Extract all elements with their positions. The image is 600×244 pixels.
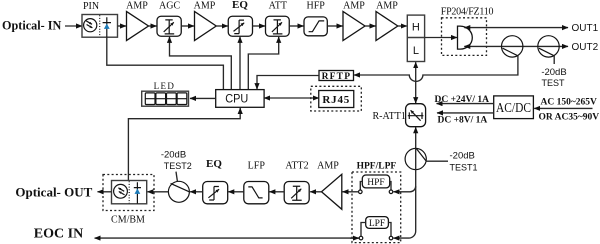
svg-text:FP204/FZ110: FP204/FZ110 [441,7,494,18]
wire CM/BM to Optical-OUT [98,191,112,193]
wire CPU to CM/BM laser control [128,108,240,181]
filter LFP [244,182,269,204]
laser transmitter module CM/BM [112,181,147,204]
svg-text:TEST: TEST [541,78,565,88]
svg-text:DC +24V/ 1A: DC +24V/ 1A [435,95,490,105]
display LED [142,91,189,106]
wire LFP to EQ2 [228,191,244,193]
wire A1 tap to RFTP (hops under vertical) [354,56,518,82]
svg-text:OUT1: OUT1 [572,23,599,34]
svg-text:R-ATT1: R-ATT1 [373,111,406,122]
svg-text:HFP: HFP [307,1,326,12]
wire OUT1 line [464,27,568,29]
op-amp AMP1 [127,12,149,41]
svg-text:Optical- IN: Optical- IN [2,19,61,33]
svg-text:TEST2: TEST2 [164,161,192,171]
test point TEST2 circle [168,172,189,203]
wire EQ to ATT [253,25,266,27]
svg-text:Optical- OUT: Optical- OUT [15,185,92,200]
wire EOC IN line [95,237,360,239]
wire AMP5 to ATT2 [310,191,321,193]
test point TEST1 circle [405,148,426,169]
connector RJ45 [319,91,354,108]
test point RFTP [319,71,354,83]
attenuator plug-in A1 on OUT2 [502,36,523,57]
svg-text:CPU: CPU [225,94,248,106]
svg-text:-20dB: -20dB [541,67,566,78]
svg-text:PIN: PIN [83,1,99,12]
op-amp AMP4 [376,12,398,41]
wire AMP3 to AMP4 [365,25,376,27]
wire vertical through TEST1 [415,148,417,169]
svg-text:DC +8V/ 1A: DC +8V/ 1A [438,116,488,126]
wire OUT2 line [464,45,568,47]
svg-text:RJ45: RJ45 [322,94,350,106]
filter HFP [304,17,327,36]
junction HPF right contact [389,190,393,194]
junction LPF right contact [389,236,393,240]
svg-text:AMP: AMP [317,160,339,171]
equalizer EQ2 [203,182,228,204]
wire AMP1 to AGC [149,25,157,27]
wire CPU to EQ control [239,37,241,90]
wire TEST1 to R-ATT1 [415,127,417,148]
wire PIN to AMP1 [118,25,127,27]
wire EQ2 to TEST2 [190,191,203,193]
wire test tap stub A2 [553,56,555,64]
RJ45 dashed box [311,86,362,111]
svg-text:ATT2: ATT2 [285,160,308,171]
wire CPU to AGC control [170,37,232,90]
svg-text:H: H [412,22,420,34]
wire TEST2 to CM/BM [147,191,168,193]
wire DC +24V output [437,103,494,105]
op-amp AMP3 [343,12,365,41]
attenuator plug-in A2 on OUT2 [538,36,559,57]
wire TEST1 tap label stub [426,160,448,162]
PIN optical receiver module U-PIN [82,15,118,38]
wire CPU to LED [190,97,216,99]
svg-text:EQ: EQ [206,158,222,170]
diplexer H/L [407,15,424,61]
svg-text:AMP: AMP [343,1,365,12]
svg-text:HPF: HPF [367,178,384,188]
wire AC mains input [534,107,592,109]
wire AMP2 to EQ [216,25,228,27]
op-amp AMP5 [322,174,342,209]
wire AGC to AMP2 [181,25,194,27]
wire AMP4 to diplexer H/L [398,25,407,27]
svg-text:OUT2: OUT2 [572,42,599,53]
attenuator AGC [157,16,181,36]
wire EOC riser [394,170,416,239]
svg-text:ATT: ATT [269,1,287,12]
svg-text:OR AC35~90V: OR AC35~90V [539,112,600,122]
svg-text:L: L [413,45,419,57]
svg-text:LED: LED [154,81,176,91]
wire RFTP to CPU [257,76,319,90]
svg-text:AMP: AMP [376,1,398,12]
wire DC +8V output [437,112,494,114]
attenuator ATT2 [284,182,309,204]
arrow into LPF left contact [350,237,359,239]
attenuator R-ATT1 [406,104,426,127]
attenuator ATT [266,16,290,36]
svg-text:AC 150~265V: AC 150~265V [541,98,598,108]
svg-text:AC/DC: AC/DC [496,100,531,115]
svg-text:HPF/LPF: HPF/LPF [357,161,397,171]
svg-text:-20dB: -20dB [161,149,186,160]
wire ATT2 to LFP [269,191,284,193]
wire H/L to R-ATT1 (bidirectional) [415,62,417,103]
wire Optical-IN to PIN [65,25,82,27]
wire HPF contact to AMP5 [343,191,359,193]
op-amp AMP2 [195,12,217,41]
laser coupler U-FP [458,26,473,49]
wire CPU to RJ45 (bidirectional) [264,97,319,99]
wire H/L to laser coupler [425,37,457,39]
svg-text:TEST1: TEST1 [450,162,478,172]
svg-text:EQ: EQ [232,0,248,11]
filter HPF [360,175,391,190]
wire ATT to HFP [289,25,303,27]
svg-text:CM/BM: CM/BM [111,215,145,226]
processor CPU [216,90,264,108]
svg-text:LFP: LFP [248,160,266,171]
svg-text:AMP: AMP [126,1,148,12]
svg-text:AMP: AMP [194,1,216,12]
wire CPU to ATT control [248,37,278,90]
power supply AC/DC [494,96,534,119]
wire HFP to AMP3 [327,25,342,27]
module FP204/FZ110 dashed box [442,18,487,56]
HPF/LPF dashed box [352,172,401,243]
junction HPF left contact [359,190,363,194]
CM/BM dotted box [103,175,154,211]
filter LPF [361,217,391,237]
svg-text:RFTP: RFTP [322,72,352,82]
wire riser branch to HPF contact [394,186,416,192]
svg-text:AGC: AGC [159,1,180,12]
wire PIN monitor to CPU [107,37,224,89]
equalizer EQ [228,16,252,36]
svg-text:-20dB: -20dB [450,150,475,161]
svg-text:EOC IN: EOC IN [34,226,83,241]
svg-text:LPF: LPF [369,219,385,229]
junction LPF left contact [359,236,363,240]
